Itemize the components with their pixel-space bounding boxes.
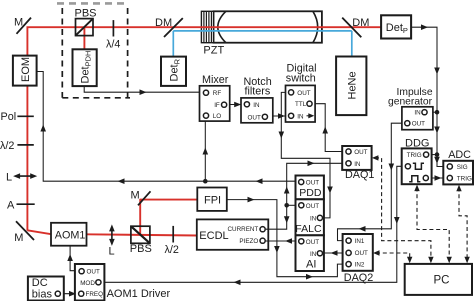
wire: DetP to Impulse IN / DDG TRIG / ADC SIG [411, 24, 446, 166]
svg-text:PDD: PDD [299, 187, 322, 199]
junction node at Mixer LO branch [203, 179, 208, 184]
dashed link: PC to DAQ1 [372, 155, 434, 263]
svg-text:IN: IN [414, 110, 421, 117]
svg-text:DM: DM [352, 17, 369, 29]
FPI (Fabry-Perot interferometer) [197, 188, 227, 211]
wire: DAQ1 OUT to Digital switch TTL [313, 104, 345, 152]
wire: DDG pulse out to ADC TRIG [429, 175, 446, 181]
svg-text:DDG: DDG [405, 138, 429, 150]
dichroic mirror DM (left) [155, 17, 183, 37]
svg-text:PC: PC [434, 275, 450, 287]
svg-text:LO: LO [213, 113, 222, 120]
cavity with PZT (spacer body between mirrors) [201, 11, 322, 42]
svg-text:IN: IN [310, 215, 317, 222]
DDG (digital delay generator) [402, 138, 432, 185]
wire: blue beam down to DetR [172, 31, 174, 57]
svg-text:PBS: PBS [130, 243, 152, 255]
dashed link: PC to DDG [414, 185, 452, 264]
junction node FALC OUT branch [284, 203, 289, 208]
svg-text:CURRENT: CURRENT [228, 226, 259, 233]
svg-text:DAQ2: DAQ2 [344, 272, 373, 284]
svg-text:bias: bias [32, 289, 53, 301]
dashed enclosure around PBS + DetPDH [57, 3, 130, 97]
svg-text:PZT: PZT [203, 45, 224, 57]
svg-text:OUT: OUT [306, 239, 319, 246]
svg-text:generator: generator [388, 97, 433, 108]
svg-text:AOM1 Driver: AOM1 Driver [107, 288, 171, 300]
wire: Impulse generator OUT to DAQ2 IN1 [338, 123, 405, 240]
svg-text:OUT: OUT [306, 203, 319, 210]
junction node at DDG TRIG [435, 152, 440, 157]
svg-text:OUT: OUT [297, 90, 310, 97]
half-wave plate lambda/2 (left) [0, 140, 34, 152]
PDD (PDH detector module) [296, 176, 324, 200]
svg-text:OUT: OUT [306, 180, 319, 187]
ECDL CURRENT port [260, 227, 265, 232]
dashed link: PC to DAQ2 [373, 250, 412, 263]
svg-text:TRIG: TRIG [457, 176, 472, 183]
aperture A [7, 200, 35, 212]
svg-text:SIG: SIG [457, 164, 468, 171]
svg-text:AI: AI [306, 258, 316, 270]
svg-text:switch: switch [286, 73, 316, 85]
FALC (fast analog linewidth control) [295, 199, 324, 235]
wire: Digital switch OUT down and over to FALC IN [279, 92, 333, 217]
svg-text:IN2: IN2 [355, 262, 365, 269]
ECDL PIEZO port [260, 238, 265, 243]
detector DetR [161, 57, 186, 86]
Notch filters [241, 76, 273, 123]
svg-text:IF: IF [214, 102, 220, 109]
svg-text:filters: filters [245, 86, 271, 98]
wire: DAQ2 OUT to AI IN [323, 250, 346, 256]
svg-text:DM: DM [155, 17, 172, 29]
svg-text:ECDL: ECDL [199, 230, 228, 242]
wire: Mixer IF to Notch filters IN [227, 102, 243, 108]
svg-text:IN: IN [354, 161, 361, 168]
EOM (electro-optic modulator) [13, 56, 37, 86]
svg-text:OUT: OUT [248, 114, 261, 121]
svg-text:IN: IN [297, 113, 304, 120]
mirror M (top left) [14, 17, 31, 34]
wire: DC bias to AOM1 Driver FREQ [61, 291, 78, 297]
dashed link: PC to ADC [456, 185, 470, 263]
svg-text:IN: IN [310, 251, 317, 258]
wire: PDD OUT to EOM and Mixer LO (modulation drive) [37, 72, 299, 185]
PBS cube (top, in dashed box) [75, 7, 97, 35]
wire: DDG gate out to AOM1 Driver MOD [102, 166, 405, 285]
DC bias source [28, 277, 64, 301]
wire: branch up to Mixer LO [203, 118, 209, 181]
svg-text:DAQ1: DAQ1 [345, 169, 374, 181]
lens L (after AOM1, vertical double arrow) [109, 224, 115, 257]
svg-text:AOM1: AOM1 [55, 229, 86, 241]
svg-text:OUT: OUT [355, 250, 368, 257]
wire: laser beam (red) main horizontal [27, 26, 382, 28]
PBS cube (bottom) [130, 226, 152, 255]
svg-text:FPI: FPI [204, 195, 221, 207]
half-wave plate lambda/2 (bottom) [165, 226, 179, 256]
svg-text:TRIG: TRIG [407, 152, 422, 159]
wire: FPI output to DAQ2 IN2 [227, 197, 345, 280]
svg-text:IN1: IN1 [355, 238, 365, 245]
Impulse generator [388, 87, 433, 130]
dichroic mirror DM (right) [342, 17, 369, 37]
svg-text:OUT: OUT [354, 149, 367, 156]
wire: blue beam DM down to HeNe [351, 31, 353, 57]
svg-text:λ/4: λ/4 [106, 39, 120, 51]
svg-text:ADC: ADC [448, 149, 471, 161]
PC [405, 264, 472, 295]
svg-text:RF: RF [213, 90, 222, 97]
wire: red beam slant into AOM1 [27, 230, 52, 234]
wire: red beam left vertical [26, 27, 28, 231]
wire: AOM1 Driver OUT up to AOM1 [67, 246, 78, 271]
wire: red beam PBS down to detector [83, 27, 85, 50]
svg-text:M: M [14, 17, 23, 29]
svg-text:MOD: MOD [80, 280, 95, 287]
svg-text:HeNe: HeNe [346, 71, 358, 99]
polarizer Pol [1, 111, 34, 123]
DAQ2 [343, 234, 374, 284]
junction node at Impulse IN [435, 110, 440, 115]
svg-text:Mixer: Mixer [202, 74, 229, 86]
svg-text:EOM: EOM [20, 57, 32, 82]
svg-text:FREQ: FREQ [86, 291, 104, 298]
mirror M (above bottom PBS, before FPI) [131, 190, 151, 206]
wire: HeNe beam (blue) horizontal [173, 30, 351, 32]
wire: FALC OUT to DAQ1 IN and ECDL CURRENT [266, 161, 345, 230]
wire: red beam PBS up to mirror [139, 199, 141, 235]
svg-text:OUT: OUT [87, 269, 100, 276]
svg-text:L: L [109, 246, 115, 258]
wire: DetPDH to Mixer RF [84, 86, 203, 95]
svg-text:M: M [131, 190, 140, 202]
Mixer [200, 74, 230, 121]
ADC [443, 149, 473, 184]
mirror M (bottom left) [14, 221, 34, 244]
svg-text:FALC: FALC [295, 223, 322, 235]
HeNe laser [336, 57, 366, 116]
AOM1 Driver [75, 264, 171, 301]
svg-text:A: A [7, 200, 15, 212]
svg-text:λ/2: λ/2 [0, 140, 14, 152]
wire: red beam mirror to FPI [140, 199, 198, 201]
svg-text:OUT: OUT [412, 121, 425, 128]
svg-text:L: L [6, 171, 12, 183]
ECDL (extended cavity diode laser) [197, 219, 268, 249]
DAQ1 [342, 146, 374, 181]
AI (analog integrator) [296, 235, 324, 271]
svg-text:DC: DC [32, 277, 48, 289]
svg-text:PIEZO: PIEZO [239, 238, 258, 245]
svg-text:Pol: Pol [1, 111, 17, 123]
lens L (left, double arrow) [6, 171, 37, 183]
svg-text:λ/2: λ/2 [165, 244, 179, 256]
svg-text:TTL: TTL [295, 101, 307, 108]
wire: Notch filters OUT to Digital switch IN [268, 113, 288, 119]
wire: AI OUT to ECDL PIEZO [265, 238, 299, 244]
detector DetP [381, 15, 411, 38]
svg-text:PBS: PBS [75, 7, 97, 19]
svg-text:IN: IN [253, 102, 260, 109]
AOM1 (acousto-optic modulator) [51, 223, 87, 246]
detector DetPDH [73, 49, 97, 86]
wire: red beam AOM1 to ECDL [86, 234, 198, 235]
Digital switch [286, 63, 317, 122]
svg-text:M: M [14, 232, 23, 244]
quarter-wave plate lambda/4 [106, 20, 120, 50]
